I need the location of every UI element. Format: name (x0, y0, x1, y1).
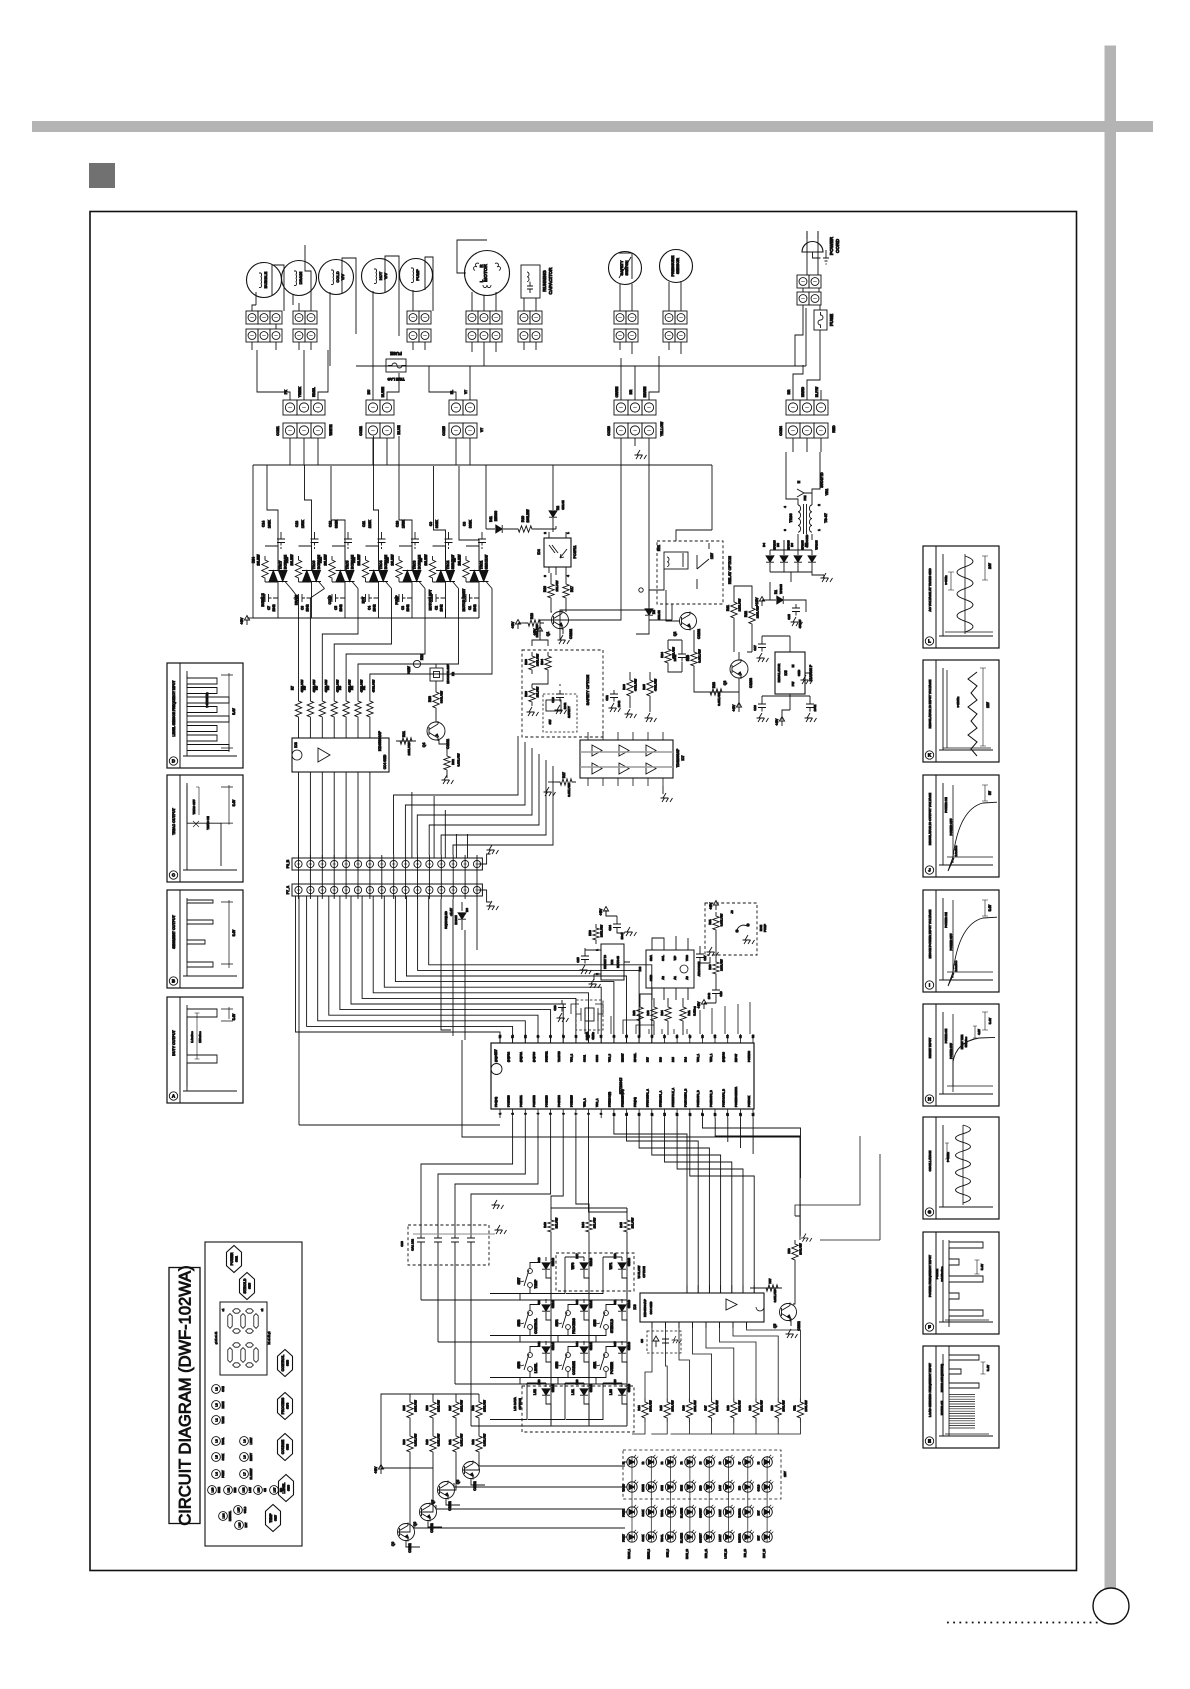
resistor R13b (627, 676, 633, 700)
resistor R24 (665, 645, 671, 667)
svg-text:POWER FREQUENCY INPUT: POWER FREQUENCY INPUT (928, 1255, 932, 1297)
svg-text:COURSE: COURSE (572, 1361, 576, 1375)
svg-text:R59: R59 (588, 930, 592, 936)
svg-text:(D4)PB0: (D4)PB0 (532, 1051, 536, 1062)
svg-text:W4005: W4005 (815, 540, 819, 550)
svg-text:L/B DATA: L/B DATA (513, 1396, 517, 1410)
wire q4 to strip (412, 740, 468, 864)
switch-diode LS0 (618, 1389, 626, 1395)
connector CON4 red (786, 400, 800, 415)
svg-text:P7_A: P7_A (286, 885, 290, 894)
rect K2 pad (430, 668, 443, 681)
svg-text:R26: R26 (524, 691, 528, 697)
svg-text:CAPACITOR: CAPACITOR (548, 267, 553, 295)
opto-coupler IC4 PC3F11 (544, 538, 571, 567)
block SAFETY OPTION (522, 650, 603, 737)
svg-text:KIA7045: KIA7045 (616, 956, 620, 968)
svg-text:PF6/ICAP1_A: PF6/ICAP1_A (658, 1090, 662, 1107)
svg-text:TEMP: TEMP (534, 1279, 538, 1289)
svg-text:LIGHT: LIGHT (251, 1437, 253, 1444)
wire fuse2 leads (795, 305, 820, 366)
svg-text:PUMP: PUMP (415, 269, 420, 281)
resistor R60 (713, 958, 719, 978)
switch-diode ST/HOLD (604, 1311, 609, 1316)
wire IC7 right tails (703, 1118, 801, 1236)
svg-text:1042: 1042 (813, 704, 817, 711)
connector CON pressure (663, 311, 675, 324)
svg-text:C1: C1 (468, 606, 472, 610)
wire q collector rows (414, 1462, 625, 1528)
svg-text:FUZZY: FUZZY (623, 1509, 626, 1517)
svg-text:R1: R1 (362, 686, 366, 690)
svg-text:VR1: VR1 (825, 489, 829, 496)
resistor bank R35-R38 (407, 1398, 413, 1422)
triac TRC6 (303, 571, 312, 582)
wire led column staircase (632, 1322, 800, 1434)
svg-text:5.4V: 5.4V (232, 707, 236, 714)
svg-text:WASH: WASH (222, 1416, 225, 1423)
svg-text:OSC3: OSC3 (595, 1054, 599, 1062)
wire micom support net (640, 936, 688, 1035)
wire bundle safety to strip (394, 736, 554, 855)
svg-text:PC2/AIN2: PC2/AIN2 (532, 1095, 536, 1107)
wire rc cluster (630, 640, 682, 712)
svg-text:R27: R27 (562, 772, 566, 778)
resistor bank R1-R7 (295, 697, 301, 721)
svg-text:R36: R36 (425, 1405, 429, 1411)
svg-text:1042: 1042 (406, 604, 410, 611)
wire con4 feeds (793, 360, 821, 400)
svg-text:R49: R49 (748, 1405, 752, 1411)
svg-text:2BY: 2BY (783, 1471, 787, 1477)
svg-text:100L/2W: 100L/2W (526, 510, 530, 523)
svg-text:C24: C24 (608, 925, 612, 931)
svg-text:BIG: BIG (281, 1488, 283, 1492)
svg-text:HEAVY: HEAVY (250, 1453, 253, 1461)
scope B SEGMENT OUTPUT (167, 890, 243, 988)
svg-text:G: G (928, 1210, 932, 1215)
svg-text:47KL/4W: 47KL/4W (634, 679, 638, 691)
transformer TRS0 (798, 505, 801, 532)
svg-text:10L/2W: 10L/2W (391, 554, 395, 565)
triac TRC1 (470, 571, 479, 582)
svg-text:220L/4W: 220L/4W (720, 959, 724, 971)
svg-text:Q2: Q2 (673, 632, 677, 637)
svg-text:CORD: CORD (835, 238, 841, 253)
svg-text:223K: 223K (368, 519, 372, 528)
capacitor C29 (712, 986, 720, 998)
svg-text:3.9KL/4W: 3.9KL/4W (567, 783, 571, 797)
ground rc cluster (645, 713, 657, 722)
svg-text:(D5)PB1: (D5)PB1 (519, 1051, 523, 1062)
svg-text:1RL/4W: 1RL/4W (555, 580, 559, 591)
svg-text:Q5: Q5 (773, 1324, 777, 1328)
scope L AC VOLTAGE AT TRANS SEC (923, 546, 999, 648)
svg-text:C3: C3 (401, 606, 405, 610)
svg-text:C3202: C3202 (569, 629, 573, 639)
svg-text:LS1: LS1 (571, 1389, 575, 1395)
ground ic6 right (661, 793, 673, 802)
button CONTROL SW (278, 1350, 293, 1377)
wire mains bus (356, 308, 806, 366)
svg-text:R45: R45 (619, 1222, 623, 1228)
svg-text:TRC4: TRC4 (379, 560, 383, 569)
svg-text:10KL/4W: 10KL/4W (407, 742, 411, 755)
svg-text:SPIN: SPIN (661, 1485, 664, 1491)
svg-text:+5V: +5V (533, 628, 537, 635)
svg-text:AC VOLTAGE AT TRANS SEC: AC VOLTAGE AT TRANS SEC (928, 568, 932, 612)
svg-text:L11: L11 (226, 1487, 230, 1492)
svg-text:SW4: SW4 (555, 1319, 559, 1326)
svg-text:3.9KL/4W: 3.9KL/4W (717, 692, 721, 706)
svg-text:1KL/4W: 1KL/4W (536, 686, 540, 697)
svg-text:LOW_12: LOW_12 (725, 1548, 728, 1558)
svg-text:WASH_1: WASH_1 (628, 1548, 631, 1559)
svg-text:RESET IC: RESET IC (603, 954, 607, 969)
button PROCESS SW (278, 1393, 293, 1420)
svg-text:CO4 GND: CO4 GND (383, 754, 387, 769)
plug POWER CORD (802, 242, 823, 253)
resistor R44k (586, 1216, 592, 1236)
panel led indicators (212, 1385, 221, 1394)
connector CON motor (466, 311, 478, 324)
svg-text:PRI: PRI (803, 495, 807, 500)
svg-text:333K: 333K (335, 519, 339, 528)
svg-text:HOT: HOT (758, 1510, 761, 1516)
svg-text:POWER ON: POWER ON (944, 1029, 948, 1044)
scope C TRIAC OUTPUT (167, 775, 243, 882)
svg-text:J8: J8 (730, 910, 734, 914)
svg-text:BIG: BIG (738, 1486, 741, 1490)
svg-text:R33: R33 (524, 659, 528, 665)
svg-text:R48: R48 (726, 1405, 730, 1411)
svg-text:RINSE: RINSE (223, 1401, 225, 1408)
svg-text:PA5: PA5 (671, 1057, 675, 1062)
svg-text:g1 f1 e1 d1: g1 f1 e1 d1 (215, 1331, 218, 1344)
button TEMP SW (266, 1505, 281, 1532)
svg-text:RINSE: RINSE (642, 1484, 645, 1492)
wire led row stubs (625, 1462, 627, 1537)
svg-text:(D6)PB2: (D6)PB2 (506, 1051, 510, 1062)
svg-text:C29: C29 (719, 991, 723, 997)
svg-text:RESET: RESET (620, 1053, 624, 1062)
svg-text:+12V: +12V (407, 665, 411, 673)
svg-text:PC3F11: PC3F11 (573, 546, 577, 559)
svg-text:BR: BR (787, 389, 791, 394)
wire feeder right pair (795, 1136, 880, 1240)
svg-text:W-FLOW: W-FLOW (637, 1266, 641, 1279)
svg-text:10L/2W: 10L/2W (458, 554, 462, 565)
svg-text:COURSE: COURSE (281, 1439, 285, 1454)
solenoid BUBBLE (247, 263, 282, 298)
svg-text:TIME LAG: TIME LAG (387, 377, 404, 381)
page right rule bar (1105, 46, 1117, 1589)
svg-text:1042: 1042 (473, 604, 477, 611)
switch-diode COURSE (566, 1353, 571, 1358)
resistor bank R39-R42 (407, 1432, 413, 1456)
svg-text:COLD: COLD (245, 1506, 247, 1513)
svg-text:R44: R44 (581, 1222, 585, 1228)
ground bridge (821, 573, 833, 582)
svg-text:WP: WP (673, 956, 677, 961)
svg-text:1042: 1042 (707, 992, 711, 999)
panel outline (205, 1242, 302, 1546)
svg-text:2.0mSec: 2.0mSec (954, 845, 958, 856)
wire con6 feeds (621, 356, 659, 400)
svg-text:R9: R9 (419, 558, 423, 562)
capacitor C23 (558, 1000, 566, 1012)
svg-text:GND: GND (797, 670, 801, 676)
svg-text:PC3/MISO/RDPA: PC3/MISO/RDPA (734, 1087, 738, 1107)
svg-text:153K: 153K (301, 519, 305, 528)
scope J REGULATOR IC OUTPUT VOLTAGE (923, 775, 999, 877)
svg-text:OPTION: OPTION (518, 1398, 522, 1410)
svg-text:OPTION: OPTION (642, 1266, 646, 1278)
svg-text:VSS_2: VSS_2 (570, 1053, 574, 1062)
svg-text:+8V: +8V (775, 718, 779, 725)
wire IC7 to key matrix columns (421, 1118, 551, 1225)
svg-text:KID65004AP: KID65004AP (378, 730, 382, 751)
svg-text:SVC47TD: SVC47TD (820, 472, 824, 488)
svg-text:SWITCH: SWITCH (625, 260, 629, 275)
svg-text:PC5/SCK: PC5/SCK (747, 1096, 751, 1107)
svg-text:C12: C12 (605, 695, 609, 701)
svg-text:R51: R51 (792, 1405, 796, 1411)
svg-text:PB5/PE1: PB5/PE1 (544, 1051, 548, 1062)
connector strip P7 (292, 884, 482, 896)
svg-text:K2: K2 (451, 672, 455, 676)
svg-text:+8V: +8V (732, 704, 736, 711)
svg-text:MICOM POWER INPUT VOLTAGE: MICOM POWER INPUT VOLTAGE (928, 910, 932, 959)
svg-text:ST/HOLD: ST/HOLD (243, 1278, 247, 1293)
wire strip pass-through (299, 855, 478, 899)
svg-text:5.4V: 5.4V (988, 904, 992, 911)
svg-text:PC1/OCMP1_B: PC1/OCMP1_B (684, 1089, 688, 1107)
svg-text:1042: 1042 (440, 604, 444, 611)
section marker square (89, 163, 115, 188)
wire key column tops (551, 1208, 627, 1216)
svg-text:C19: C19 (753, 705, 757, 711)
svg-text:100L/4W: 100L/4W (693, 1400, 697, 1412)
svg-text:L13: L13 (256, 1487, 260, 1492)
relay RY1 OPTION (657, 541, 723, 604)
resistor R32 (444, 752, 450, 774)
diode bridge D4-D7 (766, 556, 774, 562)
svg-text:100L/4W: 100L/4W (715, 1400, 719, 1412)
svg-text:t=120Hz: t=120Hz (956, 696, 960, 707)
svg-text:1KL/4W: 1KL/4W (593, 1217, 597, 1228)
wire right vertical feeders (462, 1040, 800, 1240)
ground regulator (801, 675, 813, 684)
scope E LOAD SENSING FREQUENCY INPUT (923, 1346, 999, 1448)
resistor R57 (762, 1285, 782, 1291)
svg-text:SAFETY: SAFETY (620, 260, 624, 275)
svg-text:R6: R6 (302, 686, 306, 690)
svg-text:FUZZY: FUZZY (623, 1534, 626, 1542)
svg-text:IC7: IC7 (681, 755, 685, 760)
svg-text:CON5: CON5 (442, 426, 446, 436)
transistor Q10 C3202 (780, 1304, 797, 1321)
svg-text:3.9KL/4W: 3.9KL/4W (483, 1433, 487, 1446)
svg-text:R16: R16 (543, 586, 547, 592)
svg-text:MED: MED (235, 1487, 237, 1492)
svg-text:9N148: 9N148 (627, 1299, 631, 1308)
resistor R59 (593, 924, 599, 944)
svg-text:R54: R54 (252, 557, 256, 563)
svg-text:PUMP: PUMP (763, 924, 767, 932)
svg-text:Q9: Q9 (391, 1542, 395, 1546)
svg-text:RADICA: RADICA (738, 1533, 741, 1543)
svg-text:SAFETY OPTION: SAFETY OPTION (586, 674, 590, 705)
triac TRC5 (336, 571, 345, 582)
svg-text:9N148: 9N148 (589, 1299, 593, 1308)
svg-text:SOAK: SOAK (222, 1453, 225, 1460)
schematic border frame (90, 212, 1077, 1571)
resistor R20 (691, 648, 697, 670)
regulator IC5 KIA7808 (775, 652, 805, 694)
svg-text:9N14H: 9N14H (561, 500, 565, 509)
svg-text:9N148: 9N148 (551, 1299, 555, 1308)
svg-text:SENSOR: SENSOR (676, 258, 680, 274)
capacitor array CA1 (408, 1225, 489, 1265)
svg-text:R41: R41 (448, 1439, 452, 1445)
svg-text:TRC1: TRC1 (480, 560, 484, 569)
footer dotted rule (947, 1622, 1101, 1624)
svg-text:C2: C2 (435, 606, 439, 610)
svg-text:SW7: SW7 (517, 1277, 521, 1284)
svg-text:R3: R3 (338, 686, 342, 690)
svg-text:R45: R45 (659, 1405, 663, 1411)
svg-text:SW8: SW8 (286, 1444, 290, 1451)
svg-text:VT: VT (464, 390, 468, 394)
supply +5V opto (515, 620, 520, 630)
wire IC7 pin1 long left (299, 896, 500, 1125)
resistor R27 (556, 779, 576, 785)
svg-text:D5: D5 (776, 543, 780, 547)
ic IC2 KIA7045 reset (601, 944, 624, 980)
ground con6 (635, 450, 647, 459)
wire q10 net (750, 1264, 795, 1326)
svg-text:47RL/4W: 47RL/4W (371, 679, 375, 692)
capacitor C17 (758, 640, 766, 652)
svg-text:BUBBLE: BUBBLE (263, 271, 268, 288)
svg-text:R23: R23 (712, 682, 716, 688)
svg-text:SEGMENT OUTPUT: SEGMENT OUTPUT (172, 914, 176, 948)
transistor Q2 C3202 (680, 613, 697, 630)
svg-text:RESET INPUT: RESET INPUT (928, 1038, 932, 1059)
svg-text:HOT: HOT (362, 597, 366, 604)
svg-text:+12V: +12V (755, 597, 759, 606)
wire con6 to safety block (540, 465, 649, 640)
svg-text:R41: R41 (687, 1010, 691, 1016)
scope K REGULATOR IC INPUT VOLTAGE (923, 660, 999, 762)
wire pump option net (704, 934, 716, 1003)
svg-text:10KL/4W: 10KL/4W (600, 925, 604, 937)
svg-text:IE/PC7: IE/PC7 (734, 1053, 738, 1062)
button POWER SW (227, 1246, 242, 1273)
svg-text:SW5: SW5 (593, 1319, 597, 1326)
svg-text:R43: R43 (543, 1222, 547, 1228)
scope D LEVEL SENSOR FREQUENCY INPUT (167, 663, 243, 768)
capacitor C8 block (647, 1331, 681, 1353)
solenoid DRAIN (282, 261, 317, 296)
svg-text:HOT_15: HOT_15 (763, 1548, 766, 1558)
svg-text:LS2: LS2 (533, 1389, 537, 1395)
svg-text:L17: L17 (272, 1487, 276, 1492)
svg-text:C11: C11 (362, 521, 366, 527)
svg-text:R13: R13 (285, 557, 289, 563)
wire main feed bus (253, 438, 712, 618)
svg-text:C21: C21 (685, 655, 689, 661)
capacitor C15 (792, 604, 800, 616)
switch-diode PROCESS (566, 1311, 571, 1316)
svg-text:E: E (928, 1439, 931, 1444)
svg-text:VSS_A: VSS_A (595, 1098, 599, 1107)
resistor R19 (514, 526, 536, 532)
connector CON6 yellow (614, 400, 628, 415)
svg-text:b1 c1 d2 g2: b1 c1 d2 g2 (268, 1331, 271, 1345)
resistor R25 (647, 676, 653, 700)
svg-text:R57: R57 (768, 1278, 772, 1284)
svg-text:R7: R7 (291, 686, 295, 690)
svg-text:TS-07: TS-07 (824, 513, 828, 523)
svg-text:WF0: WF0 (571, 1262, 575, 1269)
svg-text:1042: 1042 (673, 654, 677, 661)
svg-text:1042: 1042 (373, 604, 377, 611)
svg-text:t=8.33mSec: t=8.33mSec (940, 1266, 944, 1281)
svg-text:2.0mSec: 2.0mSec (954, 960, 958, 971)
capacitor C19 (758, 700, 766, 712)
wire triac gate staircase (291, 589, 492, 698)
svg-text:SW6: SW6 (517, 1361, 521, 1368)
svg-text:MOTOR OFF (INERTIA): MOTOR OFF (INERTIA) (940, 1364, 944, 1392)
svg-text:47KL/4W: 47KL/4W (654, 679, 658, 691)
svg-text:D18: D18 (613, 1253, 617, 1259)
svg-text:SW7: SW7 (274, 1515, 278, 1522)
svg-text:C3203: C3203 (749, 678, 753, 688)
svg-text:A2: A2 (661, 976, 665, 980)
svg-text:BLANKE: BLANKE (680, 1508, 683, 1518)
svg-text:D7: D7 (804, 543, 808, 547)
svg-text:Q3: Q3 (723, 681, 727, 686)
wire key column verticals (551, 1236, 627, 1426)
resistor R23 (706, 689, 726, 695)
svg-text:D11: D11 (489, 516, 493, 522)
svg-text:C23: C23 (553, 1005, 557, 1011)
svg-text:R11: R11 (352, 557, 356, 563)
svg-text:TRC6: TRC6 (312, 560, 316, 569)
svg-text:POWER ON: POWER ON (944, 797, 948, 813)
svg-text:1042: 1042 (272, 604, 276, 611)
svg-text:IC3: IC3 (638, 966, 642, 971)
transistor Q4 C3202 (427, 722, 445, 740)
svg-text:SPIN: SPIN (223, 1386, 225, 1392)
svg-text:SCL: SCL (661, 955, 665, 961)
switch-diode POWER (604, 1353, 609, 1358)
svg-text:LIGHT: LIGHT (719, 1509, 722, 1517)
svg-text:+5V: +5V (374, 1466, 378, 1473)
resistor R58 (792, 1240, 798, 1264)
connector strip P6 (292, 858, 482, 870)
wire transformer pri (786, 452, 820, 540)
svg-text:SW6: SW6 (287, 1485, 291, 1492)
ground reset (589, 979, 601, 988)
svg-text:R18: R18 (530, 613, 534, 619)
resistor R22 (749, 604, 755, 628)
svg-text:10KL/4W: 10KL/4W (414, 1400, 418, 1412)
svg-text:POWER ON: POWER ON (944, 912, 948, 928)
svg-text:R47: R47 (704, 1405, 708, 1411)
